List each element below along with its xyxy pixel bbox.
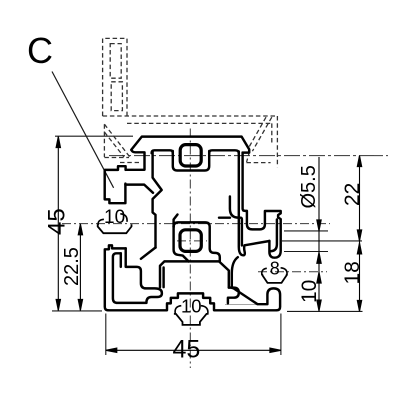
svg-text:Ø5.5: Ø5.5 <box>298 165 320 208</box>
svg-text:22.5: 22.5 <box>61 247 83 286</box>
svg-text:22: 22 <box>341 183 364 206</box>
svg-text:10: 10 <box>104 207 125 228</box>
svg-text:10: 10 <box>181 296 202 317</box>
svg-text:10: 10 <box>298 280 321 303</box>
svg-text:45: 45 <box>44 208 71 235</box>
svg-text:18: 18 <box>341 261 364 284</box>
svg-text:C: C <box>27 30 53 71</box>
svg-text:45: 45 <box>173 336 201 364</box>
svg-text:8: 8 <box>270 259 280 279</box>
